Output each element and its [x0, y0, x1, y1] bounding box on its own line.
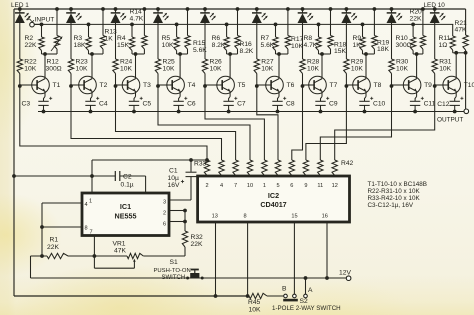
svg-text:C5: C5: [143, 101, 152, 108]
svg-text:R27: R27: [261, 59, 274, 66]
resistor R40: [303, 160, 308, 176]
svg-text:R16: R16: [240, 41, 253, 48]
svg-text:C4: C4: [99, 101, 108, 108]
wire collector stage 4: [179, 54, 181, 79]
svg-text:15K: 15K: [334, 48, 346, 55]
svg-text:R7: R7: [261, 35, 270, 42]
capacitor C5: [135, 91, 137, 96]
wire base node stage 1: [19, 74, 21, 87]
wire base stage 2 to R34: [71, 86, 222, 160]
wire input bus rail: [34, 23, 453, 25]
svg-text:R45: R45: [248, 299, 261, 306]
capacitor C8: [278, 91, 280, 96]
terminal output: [464, 109, 469, 114]
transistor T10: [443, 76, 461, 94]
svg-text:22K: 22K: [191, 241, 203, 248]
wire base stage 5 to R37: [205, 86, 264, 160]
svg-text:300Ω: 300Ω: [46, 66, 62, 73]
wire base stage 7 to R39: [292, 86, 303, 160]
resistor R19: [373, 9, 375, 36]
capacitor C3: [44, 91, 46, 96]
wire resistor-pair bottom stage 1: [42, 53, 58, 55]
svg-text:R25: R25: [163, 59, 176, 66]
resistor R1: [47, 253, 68, 258]
capacitor C2: [114, 171, 116, 181]
wire to switch S2 contact B: [267, 295, 284, 297]
svg-text:11: 11: [317, 183, 323, 189]
svg-text:R14: R14: [130, 9, 143, 16]
resistor R17: [287, 9, 289, 36]
preset wiper arrow R12: [51, 38, 62, 52]
capacitor C4: [91, 91, 93, 96]
wire left border rail: [13, 9, 15, 296]
wire R1 VR1 rail: [31, 255, 48, 257]
wire LED5 cathode: [204, 23, 206, 59]
transistor T6: [266, 76, 284, 94]
svg-text:15K: 15K: [117, 42, 129, 49]
resistor R8: [318, 24, 320, 37]
svg-text:22K: 22K: [410, 16, 422, 23]
wire collector stage 7: [321, 54, 323, 79]
svg-text:3: 3: [163, 200, 166, 206]
svg-text:1Ω: 1Ω: [439, 42, 448, 49]
IC U1 NE555: [82, 193, 169, 236]
wire base stage 9 to R41: [320, 86, 391, 160]
resistor R5: [176, 24, 178, 37]
svg-text:C3-C12-1µ, 16V: C3-C12-1µ, 16V: [368, 202, 414, 209]
svg-text:A: A: [308, 287, 313, 294]
LED 8: [345, 9, 347, 13]
svg-text:R1: R1: [50, 237, 59, 244]
wire collector stage 10: [455, 53, 457, 79]
capacitor C1: [190, 160, 192, 172]
svg-text:10K: 10K: [249, 307, 261, 314]
wire LED3 cathode: [115, 23, 117, 59]
wire base stage 1 to R33: [20, 86, 207, 160]
transistor T2: [79, 76, 97, 94]
resistor R30 392: [389, 59, 394, 74]
svg-text:47K: 47K: [114, 248, 126, 255]
resistor R38: [275, 160, 280, 176]
svg-text:IC2: IC2: [268, 191, 279, 200]
LED 7: [302, 9, 304, 13]
svg-text:R8: R8: [304, 35, 313, 42]
wire resistor-pair bottom stage 10: [453, 52, 466, 54]
IC U2 CD4017: [198, 176, 350, 222]
svg-text:PUSH-TO-ON: PUSH-TO-ON: [154, 268, 191, 274]
svg-text:1: 1: [89, 199, 92, 205]
resistor R29 346: [344, 59, 349, 74]
wire pin2 pin6 tie: [169, 210, 185, 212]
svg-text:R9: R9: [353, 35, 362, 42]
svg-text:B: B: [282, 286, 287, 293]
wire emitter output bus: [38, 111, 464, 113]
svg-text:T6: T6: [287, 82, 295, 89]
resistor R4: [131, 24, 133, 37]
svg-text:SWITCH: SWITCH: [162, 275, 186, 281]
transistor T8: [353, 76, 371, 94]
svg-text:T7: T7: [330, 82, 338, 89]
capacitor C7: [229, 91, 231, 96]
resistor R25 158: [155, 59, 160, 74]
wire LED10 cathode: [434, 23, 436, 59]
svg-text:R30: R30: [396, 59, 409, 66]
svg-text:C8: C8: [286, 101, 295, 108]
wire base stage 10 to R42: [335, 86, 435, 160]
svg-text:10K: 10K: [396, 66, 408, 73]
svg-text:T8: T8: [374, 82, 382, 89]
LED 5: [204, 9, 206, 13]
wire pin16 IC2 to supply: [326, 222, 328, 278]
wire LED4 cathode: [157, 23, 159, 59]
resistor R6: [226, 24, 228, 37]
svg-text:C11: C11: [424, 101, 436, 108]
resistor R35: [233, 160, 238, 176]
svg-text:47K: 47K: [455, 27, 467, 34]
capacitor C6: [179, 91, 181, 96]
svg-text:10K: 10K: [439, 66, 451, 73]
svg-text:R6: R6: [212, 35, 221, 42]
transistor T9: [403, 76, 421, 94]
wire collector stage 9: [416, 54, 418, 79]
wire LED2 cathode: [70, 23, 72, 59]
svg-text:C2: C2: [123, 174, 132, 181]
svg-text:10K: 10K: [120, 66, 132, 73]
svg-text:8.2K: 8.2K: [240, 48, 254, 55]
svg-text:NE555: NE555: [115, 212, 137, 221]
resistor R18: [330, 9, 332, 36]
capacitor C9: [321, 91, 323, 96]
wire resistor-pair bottom stage 3: [132, 53, 144, 55]
wire loop down-left: [30, 256, 32, 278]
wire collector stage 1: [44, 54, 46, 79]
resistor R14: [143, 9, 145, 36]
capacitor C11: [416, 91, 418, 96]
svg-text:18K: 18K: [377, 46, 389, 53]
wire collector stage 8: [365, 54, 367, 79]
resistor R21: [463, 35, 468, 50]
svg-text:22K: 22K: [25, 42, 37, 49]
wire base node stage 2: [70, 74, 72, 87]
resistor R34: [219, 160, 224, 176]
svg-text:IC1: IC1: [120, 202, 131, 211]
switch S2 1-pole 2-way: [284, 294, 288, 298]
resistor R13: [102, 9, 104, 36]
resistor R45: [249, 293, 267, 298]
wire timing rail: [92, 159, 207, 161]
wire resistor-pair bottom stage 6: [276, 53, 288, 55]
wire LED7 cathode: [302, 23, 304, 59]
wire right border rail upper: [465, 9, 467, 35]
svg-text:10K: 10K: [291, 43, 303, 50]
svg-text:16V: 16V: [168, 182, 180, 189]
resistor R10: [412, 24, 414, 37]
svg-text:CD4017: CD4017: [260, 200, 286, 209]
svg-text:R12: R12: [47, 59, 60, 66]
wire collector stage 5: [229, 54, 231, 79]
resistor R11: [452, 24, 454, 36]
svg-text:1: 1: [263, 183, 266, 189]
svg-text:22K: 22K: [47, 244, 59, 251]
resistor R20: [422, 9, 424, 36]
wire LED1 cathode: [19, 23, 21, 59]
wire resistor-pair bottom stage 7: [319, 53, 331, 55]
wire base node stage 7: [302, 74, 304, 87]
resistor R32: [182, 231, 187, 247]
svg-text:R2: R2: [25, 35, 34, 42]
resistor R12: [56, 9, 58, 36]
svg-text:1-POLE 2-WAY SWITCH: 1-POLE 2-WAY SWITCH: [272, 305, 341, 312]
svg-text:R26: R26: [210, 59, 223, 66]
wire base node stage 4: [157, 74, 159, 87]
resistor R42: [332, 160, 337, 176]
svg-text:15: 15: [291, 214, 297, 220]
svg-text:12: 12: [332, 183, 338, 189]
svg-text:1K: 1K: [353, 42, 362, 49]
resistor R28 302: [300, 59, 305, 74]
svg-text:R29: R29: [351, 59, 364, 66]
resistor R22 20: [17, 59, 22, 74]
wire LED9 cathode: [391, 23, 393, 59]
wire pin13 IC2 down: [215, 222, 217, 296]
svg-text:R33: R33: [194, 161, 207, 168]
capacitor C10: [365, 91, 367, 96]
wire R32 to rail: [184, 247, 186, 256]
svg-text:10K: 10K: [261, 66, 273, 73]
svg-text:C7: C7: [237, 101, 246, 108]
resistor R36: [247, 160, 252, 176]
wire LED8 cathode: [345, 23, 347, 59]
svg-text:C1: C1: [169, 168, 178, 175]
wire pin4 pin8 tie: [42, 202, 82, 204]
resistor R41: [318, 160, 323, 176]
svg-text:R23: R23: [76, 59, 89, 66]
wire base stage 4 to R36: [158, 86, 250, 160]
wire +V top rail: [14, 8, 466, 10]
svg-text:S1: S1: [170, 259, 178, 266]
svg-text:10K: 10K: [162, 42, 174, 49]
svg-text:C3: C3: [22, 101, 31, 108]
svg-text:T4: T4: [188, 82, 196, 89]
wire resistor-pair bottom stage 9: [413, 53, 423, 55]
svg-text:10K: 10K: [163, 66, 175, 73]
svg-text:4: 4: [84, 202, 87, 208]
potentiometer VR1: [127, 253, 143, 258]
svg-text:R5: R5: [162, 35, 171, 42]
svg-text:2: 2: [205, 183, 208, 189]
svg-text:INPUT: INPUT: [35, 17, 55, 24]
svg-text:R28: R28: [307, 59, 320, 66]
resistor R39: [289, 160, 294, 176]
wire VR1 wiper loop: [94, 267, 134, 269]
wire base node stage 9: [391, 74, 393, 87]
svg-text:R17: R17: [291, 36, 304, 43]
svg-text:5: 5: [276, 183, 279, 189]
svg-text:T1-T10-10 x BC148B: T1-T10-10 x BC148B: [368, 181, 428, 188]
svg-text:R15: R15: [193, 40, 206, 47]
svg-text:10K: 10K: [24, 66, 36, 73]
wire right border rail lower to output: [465, 50, 467, 109]
svg-text:OUTPUT: OUTPUT: [437, 117, 463, 124]
wire base node stage 6: [256, 74, 258, 87]
resistor R9: [362, 24, 364, 37]
LED 3: [115, 9, 117, 13]
wire pin1 riser: [91, 160, 93, 193]
wire collector stage 2: [91, 54, 93, 79]
transistor T1: [32, 76, 50, 94]
wire pin15 IC2 to S2 pole: [293, 222, 295, 294]
wire base node stage 5: [204, 74, 206, 87]
svg-text:R10: R10: [396, 35, 409, 42]
resistor R27 257: [254, 59, 259, 74]
resistor R15: [187, 9, 189, 36]
capacitor C12: [455, 91, 457, 96]
LED 10: [434, 9, 436, 13]
svg-text:T10: T10: [464, 82, 474, 89]
resistor R3: [88, 24, 90, 37]
svg-text:R20: R20: [410, 9, 423, 16]
svg-text:T5: T5: [238, 82, 246, 89]
wire pin8 IC2 down: [247, 222, 249, 296]
LED 4: [157, 9, 159, 13]
svg-text:10K: 10K: [351, 66, 363, 73]
svg-text:VR1: VR1: [113, 241, 126, 248]
svg-text:R11: R11: [439, 35, 451, 42]
wire collector stage 6: [278, 54, 280, 79]
wire bottom supply rail: [31, 277, 347, 279]
wire pin3 stub: [169, 199, 191, 201]
svg-text:12V: 12V: [339, 270, 351, 277]
wire base stage 3 to R35: [116, 86, 236, 160]
svg-text:2: 2: [163, 211, 166, 217]
svg-text:13: 13: [212, 214, 218, 220]
svg-text:C12: C12: [437, 101, 450, 108]
wire resistor-pair bottom stage 4: [177, 53, 188, 55]
wire pin7 down: [93, 236, 95, 269]
svg-text:7: 7: [234, 183, 237, 189]
svg-text:T9: T9: [424, 82, 432, 89]
LED 6: [256, 9, 258, 13]
resistor R7: [275, 24, 277, 37]
svg-text:8: 8: [243, 214, 246, 220]
resistor R2: [41, 24, 43, 37]
svg-text:10K: 10K: [307, 66, 319, 73]
wire input to bus: [34, 23, 41, 25]
wire base stage 8 to R40: [306, 86, 347, 160]
svg-text:10µ: 10µ: [168, 175, 179, 182]
svg-text:R4: R4: [117, 35, 126, 42]
wire contact A riser: [305, 278, 307, 294]
wire resistor-pair bottom stage 8: [363, 53, 375, 55]
terminal input: [30, 22, 35, 27]
svg-text:10K: 10K: [76, 66, 88, 73]
transistor T5: [217, 76, 235, 94]
wire resistor-pair bottom stage 2: [89, 53, 104, 55]
resistor R16: [237, 9, 239, 36]
svg-text:300Ω: 300Ω: [396, 42, 412, 49]
terminal 12V: [346, 276, 351, 281]
svg-text:6: 6: [163, 222, 166, 228]
LED 1: [19, 9, 21, 13]
svg-text:16: 16: [322, 214, 328, 220]
svg-text:10: 10: [247, 183, 253, 189]
svg-text:R22: R22: [24, 59, 37, 66]
svg-text:T3: T3: [143, 82, 151, 89]
svg-text:C9: C9: [329, 101, 338, 108]
svg-text:R31: R31: [439, 59, 452, 66]
resistor R33: [204, 160, 209, 176]
transistor T3: [122, 76, 140, 94]
switch S1 push-to-on: [190, 273, 199, 278]
wire base node stage 8: [345, 74, 347, 87]
transistor T4: [167, 76, 185, 94]
svg-text:4: 4: [220, 183, 223, 189]
svg-text:C10: C10: [373, 101, 386, 108]
resistor R24 116: [113, 59, 118, 74]
wire base stage 6 to R38: [257, 86, 278, 160]
svg-text:10K: 10K: [210, 66, 222, 73]
wire base node stage 10: [434, 74, 436, 87]
svg-text:R3: R3: [74, 35, 83, 42]
svg-text:4.7K: 4.7K: [130, 16, 144, 23]
svg-text:0.1µ: 0.1µ: [121, 182, 134, 189]
wire resistor-pair bottom stage 5: [227, 53, 238, 55]
svg-text:C6: C6: [187, 101, 196, 108]
svg-text:1K: 1K: [105, 36, 114, 43]
svg-text:9: 9: [304, 183, 307, 189]
svg-text:6: 6: [290, 183, 293, 189]
svg-text:18K: 18K: [74, 42, 86, 49]
resistor R31 435: [432, 59, 437, 74]
svg-text:8: 8: [84, 226, 87, 232]
wire collector stage 3: [135, 54, 137, 79]
LED 9: [391, 9, 393, 13]
wire LED6 cathode: [256, 23, 258, 59]
resistor R37: [262, 160, 267, 176]
wire C2 rail: [14, 175, 115, 177]
svg-text:R22-R31-10 x 10K: R22-R31-10 x 10K: [368, 188, 421, 195]
svg-text:R42: R42: [341, 160, 354, 167]
svg-text:R32: R32: [191, 234, 204, 241]
LED 2: [70, 9, 72, 13]
svg-text:4.7K: 4.7K: [304, 42, 318, 49]
svg-text:R33-R42-10 x 10K: R33-R42-10 x 10K: [368, 195, 421, 202]
wire base node stage 3: [115, 74, 117, 87]
resistor R26 205: [202, 59, 207, 74]
svg-text:R24: R24: [120, 59, 133, 66]
svg-text:T1: T1: [53, 82, 61, 89]
svg-text:7: 7: [89, 230, 92, 236]
svg-text:S2: S2: [300, 298, 308, 305]
transistor T7: [309, 76, 327, 94]
svg-text:5.6K: 5.6K: [261, 42, 275, 49]
wire bottom ground rail: [14, 295, 249, 297]
resistor R23 71: [68, 59, 73, 74]
input signal squiggle: [28, 19, 34, 22]
svg-text:8.2K: 8.2K: [212, 42, 226, 49]
svg-text:T2: T2: [100, 82, 108, 89]
